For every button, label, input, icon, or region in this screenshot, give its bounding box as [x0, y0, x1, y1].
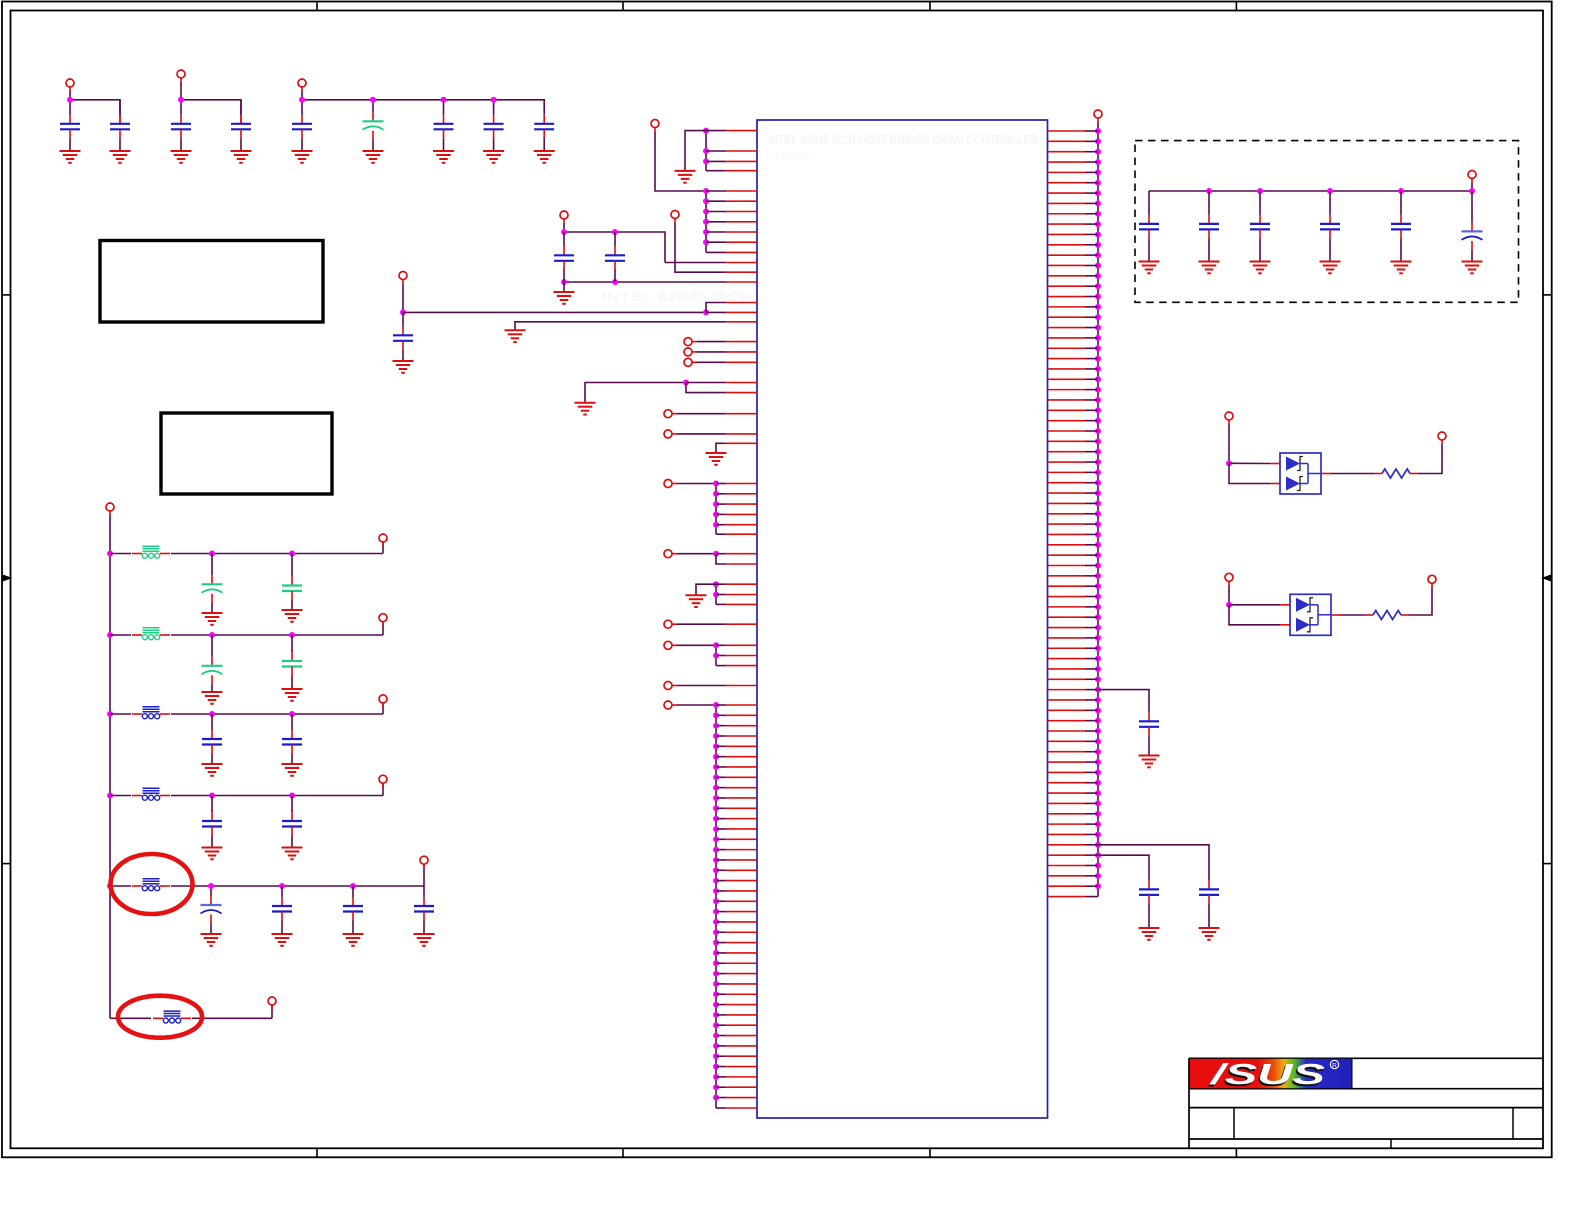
svg-text:INTEL 82845 MCH HOST BRIDGE DR: INTEL 82845 MCH HOST BRIDGE DRAM CONTROL…: [768, 132, 1038, 147]
svg-text:R: R: [1332, 1062, 1337, 1069]
svg-text:/SUS: /SUS: [1208, 1059, 1326, 1091]
svg-text:U1 82845: U1 82845: [766, 152, 810, 163]
